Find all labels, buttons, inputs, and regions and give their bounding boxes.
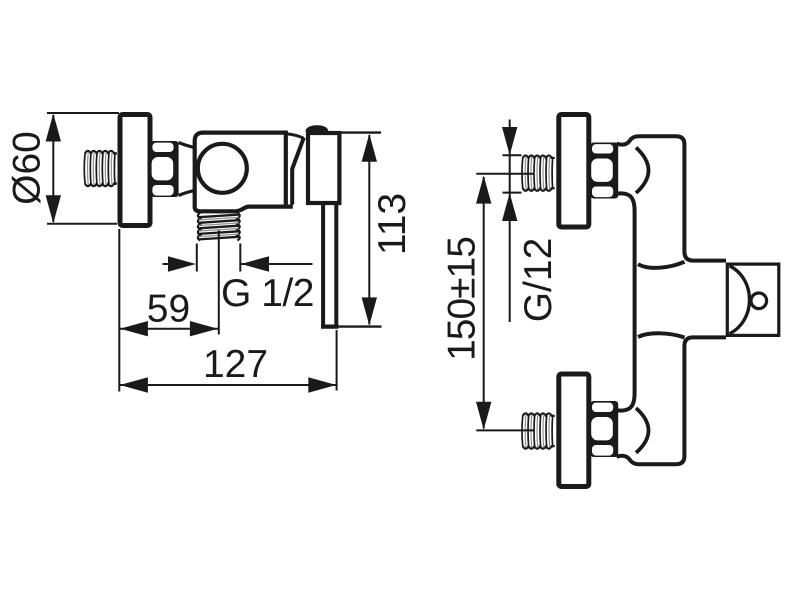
svg-text:59: 59 <box>147 288 190 331</box>
handle cap bump <box>305 125 328 131</box>
waist curve upper <box>638 262 685 268</box>
handle knob circle <box>751 293 767 309</box>
dimension Ø60 arrowheads <box>46 114 61 142</box>
wall flange (left view) <box>120 115 150 226</box>
bottom connection fillet arc <box>636 408 649 453</box>
lever bar <box>323 204 336 327</box>
top threaded wall stem (right view) <box>522 155 555 190</box>
hex nut (left view) <box>151 141 179 197</box>
handle block <box>308 133 339 203</box>
bottom threaded wall stem (right view) <box>522 413 555 448</box>
dimension G 1/2 extension lines <box>197 244 241 272</box>
valve body outline (left view) <box>195 133 293 212</box>
mixer body outline (right view), top arm <box>617 136 727 260</box>
handle wedge slant <box>292 138 304 205</box>
waist curve lower <box>638 333 685 337</box>
centerline top connection <box>476 173 534 175</box>
dimension G/12 line <box>509 120 511 323</box>
dimension G/12 ticks <box>503 155 522 192</box>
cartridge circle <box>198 144 247 193</box>
bottom wall flange (right view) <box>559 374 589 487</box>
bottom hex nut (right view) <box>591 401 619 457</box>
mixer body outline (right view), left side <box>617 193 635 410</box>
handle box (end view) <box>727 264 779 335</box>
dimension 150±15 line <box>483 177 485 429</box>
svg-text:127: 127 <box>203 343 268 386</box>
svg-text:113: 113 <box>371 193 414 255</box>
handle bulge arc <box>730 266 750 334</box>
dimension 127 line <box>120 384 336 386</box>
dimension Ø60 line <box>52 115 54 222</box>
dimension 113 line <box>368 135 370 325</box>
top hex nut (right view) <box>591 143 619 199</box>
dimension Ø60 extension lines <box>47 113 119 224</box>
neck between nut and body <box>179 143 195 196</box>
dimension 59 line <box>120 328 218 330</box>
svg-text:G 1/2: G 1/2 <box>221 272 314 315</box>
handle wedge curve <box>287 134 304 138</box>
mixer body outline (right view), bottom arm <box>617 337 727 464</box>
dimension 150±15 arrowheads <box>476 176 491 204</box>
dimension 59 arrowheads <box>120 321 148 336</box>
top wall flange (right view) <box>559 115 589 228</box>
svg-text:Ø60: Ø60 <box>6 131 49 205</box>
dimension 127 extension line (right) <box>336 330 338 391</box>
dimension G/12 arrowheads <box>502 127 517 155</box>
centerline bottom connection <box>476 429 535 431</box>
dimension 127 arrowheads <box>120 377 148 392</box>
dimension G 1/2 line with outside arrows <box>163 263 313 265</box>
svg-text:G/12: G/12 <box>517 238 560 323</box>
dimension 113 arrowheads <box>362 134 377 162</box>
top connection fillet arc <box>636 148 649 194</box>
dimension 59 extension lines <box>119 229 219 392</box>
svg-text:150±15: 150±15 <box>441 237 484 361</box>
outlet thread (below body) <box>198 213 240 241</box>
dimension 113 extension lines <box>339 133 382 327</box>
threaded wall stem (left view) <box>84 151 117 186</box>
